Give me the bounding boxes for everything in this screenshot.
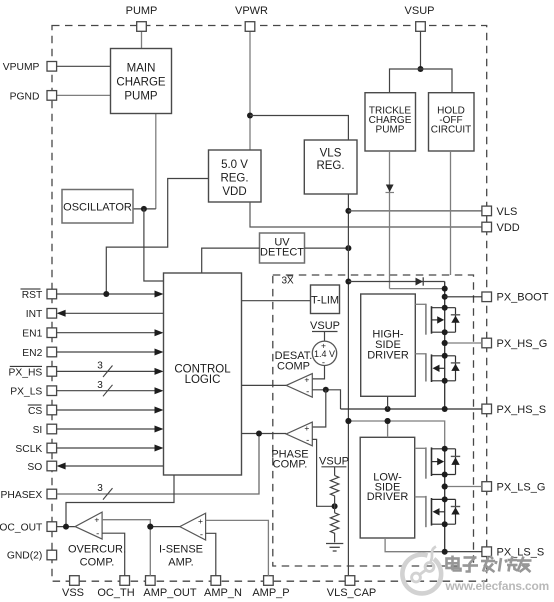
- svg-text:PUMP: PUMP: [126, 5, 158, 17]
- svg-text:PX_HS_G: PX_HS_G: [497, 338, 548, 350]
- svg-text:VSUP: VSUP: [319, 455, 349, 467]
- wire RST row: [57, 293, 156, 295]
- main charge pump box U-MCP: [111, 49, 172, 114]
- 1.4V reference source: [312, 340, 336, 368]
- pin SO: [47, 461, 57, 471]
- UV detect box: [260, 233, 305, 263]
- junction LS gate node: [442, 484, 448, 490]
- svg-text:5.0 V: 5.0 V: [221, 159, 248, 171]
- wire EN1 row: [57, 332, 156, 334]
- wire boot diode line: [348, 281, 444, 283]
- pin PX_HS_G: [482, 338, 492, 348]
- junction clock node: [141, 206, 147, 212]
- wire PX_BOOT line: [445, 296, 482, 298]
- svg-text:PX_HS_S: PX_HS_S: [497, 404, 547, 416]
- wire LS driver box to PX_LS_S: [385, 538, 445, 552]
- wire desat - input net: [312, 390, 340, 409]
- junction UV/VLS: [345, 245, 351, 251]
- svg-text:RST: RST: [22, 290, 43, 301]
- svg-text:VLS: VLS: [320, 148, 342, 160]
- svg-text:PUMP: PUMP: [376, 125, 405, 136]
- wire desat output to control logic: [242, 384, 287, 386]
- inner 3X dashed box: [273, 275, 474, 566]
- svg-text:OC_OUT: OC_OUT: [0, 523, 43, 534]
- resistor R1: [330, 476, 338, 504]
- svg-text:VSUP: VSUP: [405, 5, 435, 17]
- svg-text:+: +: [198, 516, 203, 526]
- svg-text:AMP_P: AMP_P: [252, 587, 289, 599]
- wire SO row (output arrow at pin): [65, 465, 164, 467]
- wire PX_LS_G line: [445, 486, 482, 488]
- left pin labels: [0, 62, 43, 561]
- svg-text:AMP.: AMP.: [168, 557, 193, 569]
- pin PX_LS_S: [482, 547, 492, 557]
- svg-text:+: +: [321, 340, 326, 350]
- pin squares template: [47, 22, 492, 586]
- svg-text:+: +: [304, 375, 309, 385]
- watermark logo circle: [402, 547, 441, 594]
- pin VPWR: [245, 22, 255, 32]
- wire VSUP to trickle charge pump and hold-off: [390, 69, 453, 93]
- svg-text:I-SENSE: I-SENSE: [159, 544, 203, 556]
- wire phase output to control logic: [242, 433, 287, 435]
- junction rail / HS source: [442, 406, 448, 412]
- wire PX_HS_G line: [445, 342, 482, 344]
- junction trickle/boot: [442, 286, 448, 292]
- svg-text:+: +: [94, 515, 99, 525]
- wire VDD rail to VDD pin: [250, 202, 482, 227]
- svg-text:+: +: [304, 423, 309, 433]
- ground: [326, 544, 343, 552]
- pin AMP_P: [264, 576, 274, 586]
- overline CS: [28, 404, 42, 406]
- wire hold-off output: [450, 151, 452, 275]
- svg-text:MAIN: MAIN: [127, 63, 156, 75]
- wire AMP_OUT drop: [149, 527, 151, 576]
- svg-text:AMP_OUT: AMP_OUT: [143, 587, 196, 599]
- svg-text:EN1: EN1: [22, 329, 42, 340]
- pin EN1: [47, 328, 57, 338]
- wire SCLK row: [57, 447, 156, 449]
- wire overcur - to OC_TH pin: [102, 533, 125, 576]
- svg-text:PUMP: PUMP: [124, 91, 158, 103]
- overline PX_HS: [10, 365, 42, 367]
- svg-text:CIRCUIT: CIRCUIT: [431, 125, 472, 136]
- svg-text:SCLK: SCLK: [15, 444, 42, 455]
- T-LIM box: [311, 285, 340, 314]
- svg-text:PX_HS: PX_HS: [9, 367, 43, 378]
- junction RST / 5V reg net: [103, 291, 109, 297]
- junction VSUP split: [418, 66, 424, 72]
- wire VPWR branch to VLS regulator: [250, 116, 348, 141]
- wire VLS vertical rail down to VLS_CAP: [347, 194, 349, 577]
- wire i-sense - to AMP_N: [206, 533, 216, 575]
- transistor M3 LS pull-up: [415, 446, 461, 479]
- wire PX_LS_S line: [445, 551, 482, 553]
- junction divider mid: [332, 503, 338, 509]
- pin RST: [47, 289, 57, 299]
- svg-text:VSUP: VSUP: [310, 320, 340, 332]
- svg-text:3: 3: [97, 361, 103, 372]
- svg-text:COMP: COMP: [277, 360, 310, 372]
- overline RST: [21, 288, 41, 290]
- wire 1.4V to desat + input: [312, 366, 324, 379]
- pin PUMP: [137, 22, 147, 32]
- wire CS row: [57, 409, 156, 411]
- pin OC_TH: [120, 576, 130, 586]
- svg-text:-: -: [96, 529, 99, 540]
- pin GND2: [47, 550, 57, 560]
- svg-text:CS: CS: [28, 406, 42, 417]
- junction HS gate node: [442, 340, 448, 346]
- wire trickle to boot rail: [390, 288, 445, 290]
- svg-text:OSCILLATOR: OSCILLATOR: [63, 202, 132, 214]
- svg-text:PX_LS_S: PX_LS_S: [497, 547, 545, 559]
- wire control logic to OC_OUT node: [66, 475, 174, 527]
- wire i-sense output to amp_out node: [150, 526, 180, 528]
- svg-text:-: -: [200, 529, 203, 540]
- wire EN2 row: [57, 351, 156, 353]
- wire VPUMP to main charge pump: [52, 65, 111, 67]
- svg-text:REG.: REG.: [220, 173, 248, 185]
- pin AMP_OUT: [146, 576, 156, 586]
- svg-text:3X: 3X: [282, 276, 295, 287]
- low side rail vertical: [444, 449, 446, 552]
- wire OC_OUT row: [57, 526, 76, 528]
- pin PX_HS_S: [482, 404, 492, 414]
- junction LS driver supply: [385, 418, 391, 424]
- junction AMP_OUT: [147, 524, 153, 530]
- wire main charge pump down to oscillator line: [155, 114, 157, 209]
- svg-text:COMP.: COMP.: [273, 458, 308, 470]
- wire PHASEX row with bus slash 3: [57, 434, 259, 495]
- wire desat- to phase + input: [312, 390, 326, 427]
- junction VLS/LS rail: [345, 418, 351, 424]
- svg-text:VPWR: VPWR: [235, 5, 268, 17]
- wire PX_LS row with bus slash 3: [57, 390, 156, 392]
- wire UV detect to VLS rail: [305, 247, 349, 249]
- junction VPWR branch: [247, 113, 253, 119]
- low-side driver box: [360, 437, 415, 538]
- junction desat- branch: [323, 387, 329, 393]
- svg-text:-: -: [306, 435, 309, 446]
- i-sense amplifier U-ISENSE: [180, 513, 206, 540]
- junction PX_BOOT: [442, 294, 448, 300]
- boot rail vertical: [444, 282, 446, 410]
- svg-text:DRIVER: DRIVER: [367, 350, 409, 362]
- pin EN2: [47, 347, 57, 357]
- svg-text:3: 3: [97, 483, 103, 494]
- svg-text:PX_LS: PX_LS: [10, 387, 42, 398]
- pin INT: [47, 309, 57, 319]
- wire INT row (output arrow at pin): [65, 312, 164, 314]
- trickle charge pump box: [365, 93, 416, 151]
- hold-off circuit box: [429, 93, 475, 151]
- wire VLS to low side rail: [348, 421, 444, 449]
- svg-text:PX_LS_G: PX_LS_G: [497, 481, 546, 493]
- transistor M4 LS pull-down: [415, 496, 461, 527]
- junction phasex net: [256, 431, 262, 437]
- svg-text:VDD: VDD: [497, 222, 520, 234]
- wire VPWR down to 5.0V regulator: [249, 27, 251, 150]
- svg-text:OVERCUR.: OVERCUR.: [68, 544, 126, 556]
- control logic box U-CL: [164, 273, 242, 475]
- svg-text:DRIVER: DRIVER: [367, 491, 409, 503]
- diode on trickle output: [386, 185, 395, 193]
- svg-text:3: 3: [97, 380, 103, 391]
- svg-text:VLS_CAP: VLS_CAP: [327, 587, 377, 599]
- pin VDD: [482, 222, 492, 232]
- pin SCLK: [47, 443, 57, 453]
- svg-text:SI: SI: [33, 425, 43, 436]
- oscillator box: [62, 190, 133, 224]
- svg-text:SO: SO: [27, 462, 42, 473]
- wire i-sense + to AMP_P: [206, 520, 269, 575]
- svg-text:LOGIC: LOGIC: [185, 374, 221, 386]
- svg-text:-: -: [306, 387, 309, 398]
- wire trickle pump output with diode: [389, 151, 391, 289]
- junction VLS boot branch: [345, 279, 351, 285]
- overcurrent comparator U-OC: [75, 512, 102, 540]
- wire SI row: [57, 428, 156, 430]
- svg-text:VDD: VDD: [222, 186, 246, 198]
- svg-text:VPUMP: VPUMP: [3, 62, 40, 73]
- svg-text:INT: INT: [26, 309, 43, 320]
- wire PUMP pin to main charge pump: [141, 27, 143, 49]
- pin VLS_CAP: [345, 576, 355, 586]
- svg-text:PGND: PGND: [10, 91, 40, 102]
- wire PGND to main charge pump: [52, 94, 111, 96]
- junction OC_OUT: [63, 524, 69, 530]
- pin PX_BOOT: [482, 292, 492, 302]
- svg-text:VLS: VLS: [497, 206, 518, 218]
- svg-text:VSS: VSS: [62, 587, 84, 599]
- pin VPUMP: [47, 62, 57, 72]
- boot diode symbol: [416, 277, 424, 285]
- 5.0V regulator box: [209, 150, 262, 202]
- svg-text:REG.: REG.: [316, 160, 344, 172]
- svg-text:www.elecfans.com: www.elecfans.com: [445, 579, 550, 593]
- VLS regulator box: [304, 140, 357, 194]
- wire phase - to divider: [312, 439, 334, 506]
- wire overcur + from amp_out node: [102, 520, 150, 527]
- wire 5.0V reg input from RST net: [106, 179, 208, 295]
- junction VLS line: [345, 208, 351, 214]
- wire LS driver supply stub: [387, 421, 389, 437]
- wire UV detect to control logic: [202, 248, 260, 273]
- chip outer dashed border: [52, 26, 487, 582]
- svg-text:AMP_N: AMP_N: [204, 587, 242, 599]
- wire PX_HS row with bus slash 3: [57, 370, 156, 372]
- wire VSUP to resistor R1: [334, 467, 336, 476]
- svg-text:EN2: EN2: [22, 348, 42, 359]
- pin SI: [47, 424, 57, 434]
- pin CS: [47, 405, 57, 415]
- svg-text:OC_TH: OC_TH: [97, 587, 134, 599]
- wire PX_HS_S line: [341, 408, 483, 410]
- svg-text:PX_BOOT: PX_BOOT: [497, 292, 549, 304]
- wire HS driver box to source: [387, 396, 389, 409]
- pin PHASEX: [47, 489, 57, 499]
- svg-text:COMP.: COMP.: [80, 557, 115, 569]
- transistor M2 HS pull-down: [415, 353, 460, 384]
- resistor R2: [330, 513, 338, 543]
- svg-text:PHASEX: PHASEX: [1, 490, 43, 501]
- pin PX_LS_G: [482, 482, 492, 492]
- transistor M1 HS pull-up: [415, 304, 460, 336]
- svg-text:T-LIM: T-LIM: [311, 295, 339, 307]
- wire VSUP bar to 1.4V source: [324, 332, 326, 342]
- watermark chinese text (approximated strokes): [447, 556, 532, 573]
- wire control logic to T-LIM: [242, 300, 311, 302]
- svg-text:DETECT: DETECT: [260, 247, 304, 259]
- junction rail / PX_LS_S: [442, 549, 448, 555]
- phase comparator U-PHASE: [286, 422, 312, 446]
- pin OC_OUT: [47, 522, 57, 532]
- pin AMP_N: [211, 576, 221, 586]
- high-side driver box: [361, 294, 416, 396]
- pin PX_LS: [47, 386, 57, 396]
- pin VLS: [482, 206, 492, 216]
- wire VLS line to VLS pin: [348, 210, 482, 212]
- pin PGND: [47, 91, 57, 101]
- svg-text:GND(2): GND(2): [7, 551, 42, 562]
- pin PX_HS: [47, 367, 57, 377]
- wire clock to control logic: [144, 209, 164, 281]
- pin VSUP: [416, 22, 426, 32]
- junction HS driver source: [385, 406, 391, 412]
- wire oscillator output: [133, 208, 156, 210]
- junction redraws over gray wires: [345, 340, 447, 490]
- wire VSUP pin down: [420, 27, 422, 69]
- svg-text:CHARGE: CHARGE: [116, 77, 166, 89]
- desat comparator U-DESAT: [286, 374, 312, 398]
- pin VSS: [70, 576, 80, 586]
